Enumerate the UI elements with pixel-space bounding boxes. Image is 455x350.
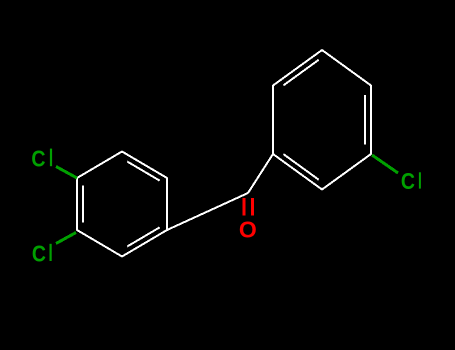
- inner double bond L6L1: [82, 185, 84, 222]
- inner double bond R2R3: [364, 95, 366, 144]
- chain: ring -> CH2 -> carbonyl C: [167, 193, 248, 230]
- bond carbonyl C -> right ring: [248, 154, 273, 193]
- bond R3 -> Cl3: [372, 155, 398, 173]
- svg-text:O: O: [239, 216, 257, 242]
- inner double bond L2L3: [127, 162, 159, 181]
- inner double bond R6R1: [283, 60, 318, 86]
- svg-text:C: C: [32, 241, 46, 267]
- right benzene ring: [273, 50, 371, 190]
- inner double bond R4R5: [283, 154, 318, 180]
- inner double bond L4L5: [127, 227, 159, 246]
- svg-text:C: C: [31, 146, 45, 172]
- svg-text:C: C: [401, 169, 415, 195]
- C=O double bond: [243, 198, 246, 216]
- left benzene ring: [77, 152, 167, 257]
- bond Cl1 -> L1: [56, 167, 77, 179]
- bond Cl2 -> L6: [56, 233, 76, 244]
